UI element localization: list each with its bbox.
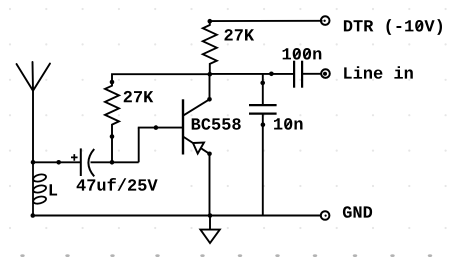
terminal GND: [321, 211, 330, 220]
node collector bend: [207, 97, 212, 102]
antenna: [17, 62, 51, 91]
terminal Line in: [321, 69, 330, 78]
label 100n: [283, 48, 322, 60]
node inductor bottom corner: [31, 213, 36, 218]
capacitor C3 10n: [249, 105, 277, 114]
wire R1 bottom lead: [111, 137, 113, 163]
wire step vertical: [138, 128, 140, 163]
label GND: [343, 206, 372, 218]
node R1 bottom junction: [110, 160, 115, 165]
wire C1 to step: [91, 161, 139, 163]
wire DTR: [210, 20, 323, 22]
label BC558: [192, 118, 241, 130]
label Line in: [344, 66, 413, 79]
transistor Q1 BC558 base bar: [182, 99, 184, 154]
wire base lead: [138, 127, 183, 129]
node base wire dot: [154, 125, 159, 130]
node 10n bottom dot: [261, 122, 266, 127]
resistor R2 27K: [203, 21, 217, 74]
wire 100n to Line in terminal: [302, 73, 321, 75]
node emitter end: [207, 152, 212, 157]
wire emitter vertical: [209, 154, 211, 216]
label 27K R1: [124, 91, 154, 102]
wire 10n top lead: [262, 74, 264, 105]
transistor Q1 emitter arrow: [193, 143, 204, 154]
wire antenna stem: [32, 91, 34, 163]
terminal DTR: [321, 16, 330, 25]
wire collector vertical: [209, 74, 211, 99]
node R1 top terminal: [110, 80, 115, 85]
node emitter ground junction: [208, 213, 213, 218]
node R1 bottom terminal: [110, 134, 115, 139]
node wire dot: [56, 160, 61, 165]
wire ground rail: [33, 215, 321, 217]
capacitor C2 100n: [294, 61, 302, 88]
label L: [50, 184, 58, 195]
node 10n top dot: [260, 81, 265, 86]
node R2 top terminal: [208, 19, 213, 24]
resistor R1 27K: [105, 82, 119, 137]
inductor L: [32, 162, 46, 215]
transistor Q1 collector lead: [183, 99, 210, 115]
wire R1 top to rail: [112, 74, 210, 82]
wire antenna node to C1: [33, 161, 80, 163]
label 27K R2: [225, 29, 255, 40]
node antenna-inductor junction: [31, 160, 36, 165]
label 47uf/25V: [77, 178, 158, 191]
ground: [200, 216, 219, 244]
capacitor C1 47uf/25V: [81, 148, 94, 176]
transistor Q1 emitter lead: [183, 137, 210, 154]
wire collector rail: [210, 73, 294, 75]
node rail R2 junction: [208, 72, 213, 77]
capacitor C1 polarity plus: [71, 154, 78, 161]
node rail dot: [269, 72, 274, 77]
label DTR (-10V): [344, 19, 442, 35]
wire 10n bottom lead: [262, 114, 264, 216]
label 10n: [274, 118, 303, 130]
